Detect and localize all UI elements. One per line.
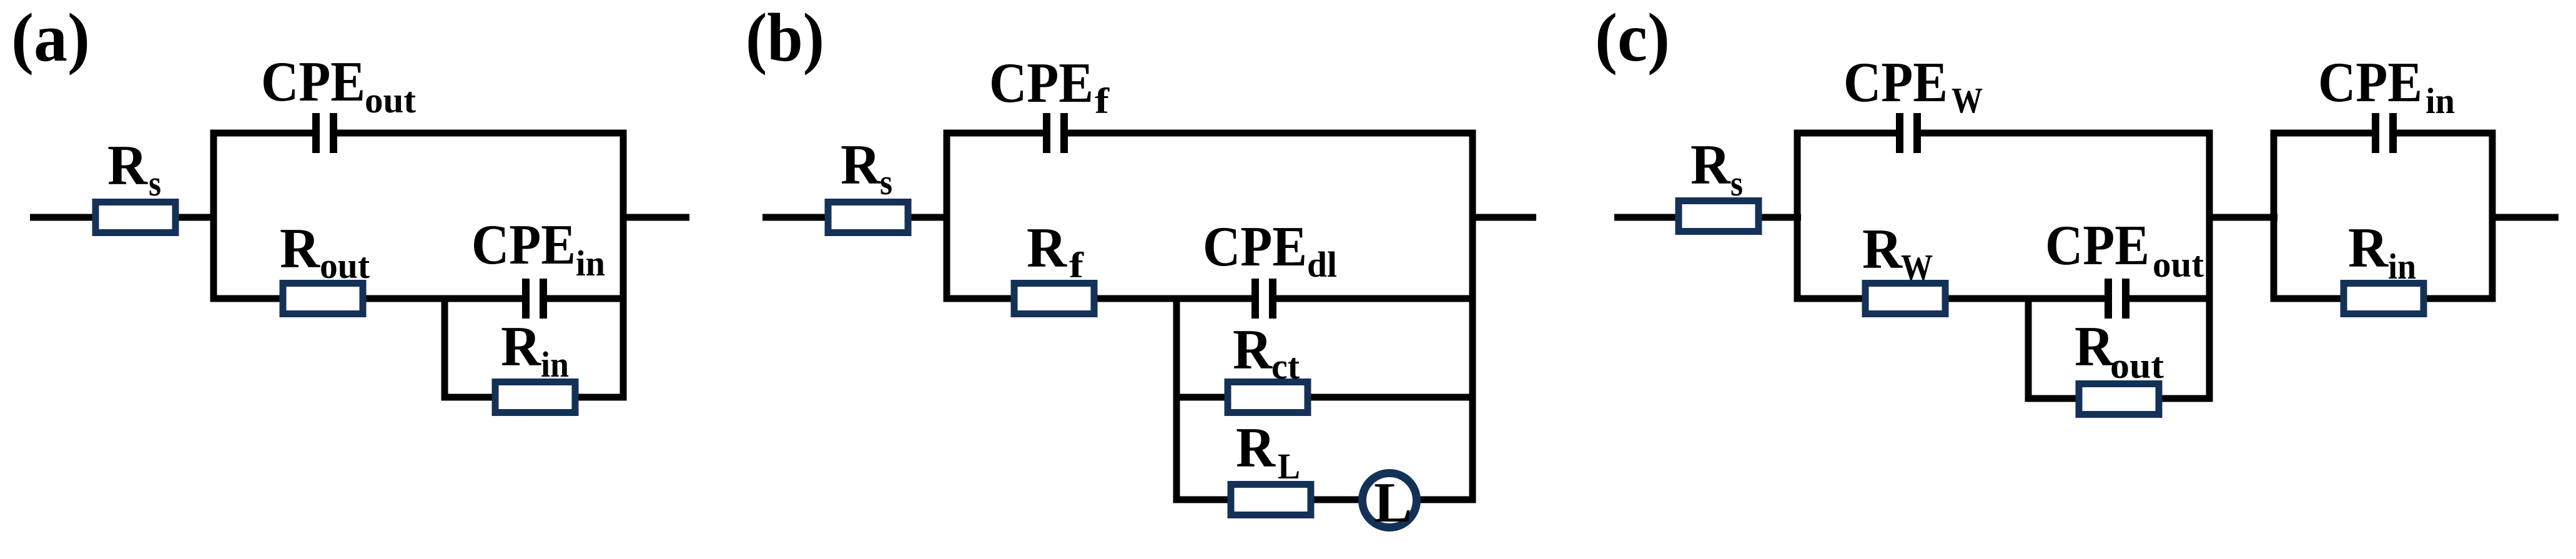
svg-text:out: out <box>320 245 370 286</box>
wire: input lead (b) <box>762 214 832 221</box>
svg-text:in: in <box>541 344 569 385</box>
svg-text:CPE: CPE <box>471 213 576 276</box>
svg-text:f: f <box>1095 81 1110 121</box>
label Rs (a) <box>107 134 161 204</box>
wire: outer block right vertical (a) <box>620 130 627 401</box>
svg-text:R: R <box>107 134 148 197</box>
wire: middle rail right of CPE_out (c) <box>2124 295 2209 302</box>
wire: Rs to parallel block (a) <box>172 214 217 221</box>
svg-text:R: R <box>2348 216 2389 279</box>
wire: outer block left vertical (b) <box>944 130 950 302</box>
svg-text:(a): (a) <box>11 0 90 76</box>
wire: RL rail (b) <box>1177 497 1473 503</box>
label CPE_out (a) <box>261 50 417 121</box>
svg-text:s: s <box>880 162 892 202</box>
capacitor CPE_in (a) <box>522 279 547 319</box>
label CPE_in (a) <box>471 213 605 284</box>
wire: output lead (b) <box>1473 214 1536 221</box>
resistor Rout (c) <box>2079 384 2159 415</box>
svg-text:L: L <box>1374 471 1412 534</box>
capacitor CPE_in (c) <box>2372 113 2397 153</box>
svg-text:CPE: CPE <box>1203 215 1307 278</box>
svg-text:R: R <box>501 315 541 378</box>
wire: input lead (a) <box>30 214 100 221</box>
wire: middle rail right of CPE_dl (b) <box>1271 295 1473 302</box>
wire: second block left vertical (c) <box>2271 130 2277 302</box>
svg-text:W: W <box>1952 80 1983 121</box>
wire: middle rail left of CPE_out (c) <box>1797 295 2110 302</box>
svg-text:f: f <box>1069 245 1084 285</box>
svg-text:in: in <box>2388 246 2416 287</box>
svg-text:s: s <box>149 163 161 204</box>
wire: output lead (c) <box>2492 214 2559 221</box>
wire: top rail left of CPE_W (c) <box>1797 130 1901 137</box>
inductor L (b) <box>1363 473 1417 528</box>
label CPE_dl (b) <box>1203 215 1337 285</box>
wire: top rail left of CPE_in (c) <box>2274 130 2377 137</box>
svg-text:CPE: CPE <box>989 51 1093 114</box>
resistor RW (c) <box>1865 284 1945 314</box>
label CPE_out (c) <box>2045 214 2204 285</box>
svg-text:out: out <box>365 80 417 121</box>
svg-text:R: R <box>1027 216 1067 279</box>
resistor Rf (b) <box>1014 284 1094 314</box>
wire: middle rail left of CPE_dl (b) <box>947 295 1256 302</box>
wire: outer block right vertical (b) <box>1469 130 1476 503</box>
svg-text:L: L <box>1278 446 1300 487</box>
wire: input lead (c) <box>1614 214 1684 221</box>
resistor Rin (a) <box>495 382 575 413</box>
wire: top rail right of CPE_W (c) <box>1916 130 2209 137</box>
wire: top rail left of CPE_f (b) <box>947 130 1048 137</box>
label CPE_W (c) <box>1843 51 1983 121</box>
wire: top rail right of CPE_in (c) <box>2392 130 2492 137</box>
wire: Rs to first parallel block (c) <box>1756 214 1801 221</box>
resistor Rct (b) <box>1228 382 1308 413</box>
label Rout (c) <box>2075 315 2164 386</box>
svg-text:R: R <box>280 217 320 280</box>
wire: bottom rail (a) <box>445 394 623 401</box>
label Rin (a) <box>501 315 569 385</box>
svg-text:CPE: CPE <box>2045 214 2149 277</box>
label Rout (a) <box>280 217 370 286</box>
svg-text:s: s <box>1730 163 1743 204</box>
svg-text:CPE: CPE <box>1843 51 1948 114</box>
wire: top rail right of CPE_f (b) <box>1063 130 1473 137</box>
wire: second block right vertical (c) <box>2489 130 2496 302</box>
svg-text:CPE: CPE <box>261 50 365 113</box>
svg-text:dl: dl <box>1307 244 1337 285</box>
svg-text:R: R <box>1236 416 1276 479</box>
wire: first block left vertical (c) <box>1794 130 1801 302</box>
label Rct (b) <box>1233 318 1300 387</box>
resistor Rin (c) <box>2344 284 2424 314</box>
capacitor CPE_f (b) <box>1043 113 1068 153</box>
wire: middle rail right of CPE_in (a) <box>542 295 623 302</box>
svg-text:R: R <box>1233 318 1273 381</box>
wire: Rct rail (b) <box>1177 394 1473 401</box>
resistor Rout (a) <box>283 284 363 314</box>
label Rs (c) <box>1690 133 1743 204</box>
svg-text:out: out <box>2110 345 2164 386</box>
label Rs (b) <box>841 133 892 202</box>
svg-text:ct: ct <box>1271 346 1300 387</box>
wire: link between blocks (c) <box>2209 214 2277 221</box>
wire: first block right vertical (c) <box>2206 130 2213 402</box>
resistor Rs (b) <box>828 202 908 233</box>
capacitor CPE_out (c) <box>2105 279 2129 319</box>
label RW (c) <box>1862 217 1933 287</box>
capacitor CPE_out (a) <box>312 113 337 153</box>
wire: inner block left vertical (c) <box>2025 295 2032 402</box>
wire: inner block left vertical (a) <box>442 295 448 401</box>
wire: top rail left of CPE_out (a) <box>214 130 317 137</box>
svg-text:(b): (b) <box>746 0 824 76</box>
wire: Rs to parallel block (b) <box>904 214 950 221</box>
svg-text:in: in <box>576 243 605 284</box>
label Rf (b) <box>1027 216 1084 285</box>
capacitor CPE_dl (b) <box>1251 279 1276 319</box>
wire: outer block left vertical (a) <box>210 130 217 302</box>
svg-text:(c): (c) <box>1595 0 1670 76</box>
label RL (b) <box>1236 416 1300 487</box>
svg-text:out: out <box>2153 244 2204 285</box>
resistor Rs (a) <box>96 202 175 233</box>
resistor Rs (c) <box>1679 201 1759 232</box>
wire: top rail right of CPE_out (a) <box>332 130 623 137</box>
label CPE_in (c) <box>2318 51 2455 121</box>
svg-text:W: W <box>1901 247 1933 287</box>
svg-text:R: R <box>841 133 881 196</box>
svg-text:CPE: CPE <box>2318 51 2422 114</box>
label Rin (c) <box>2348 216 2416 287</box>
wire: Rout rail (c) <box>2028 395 2209 402</box>
capacitor CPE_W (c) <box>1896 113 1921 153</box>
wire: output lead (a) <box>623 214 689 221</box>
svg-text:in: in <box>2425 81 2455 121</box>
svg-text:R: R <box>1862 217 1903 280</box>
wire: inner block left vertical (b) <box>1173 295 1180 503</box>
wire: second block bottom rail (c) <box>2274 295 2492 302</box>
svg-text:R: R <box>2075 315 2115 378</box>
wire: middle rail left of CPE_in (a) <box>214 295 527 302</box>
resistor RL (b) <box>1231 485 1311 515</box>
label CPE_f (b) <box>989 51 1110 121</box>
svg-text:R: R <box>1690 133 1731 196</box>
